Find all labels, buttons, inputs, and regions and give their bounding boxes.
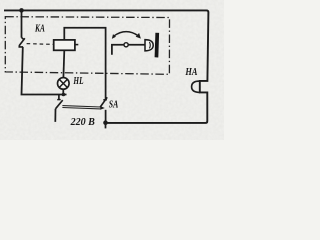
dash-dot apparatus frame	[5, 17, 169, 75]
switch SA left blade	[56, 100, 63, 109]
switch SA right blade	[100, 97, 107, 107]
switch SA right pole tick	[103, 99, 107, 101]
svg-text:220 В: 220 В	[70, 117, 95, 128]
wire coil top loop to switch branch	[64, 28, 105, 100]
contact KA blade	[19, 38, 25, 45]
coil right stub	[75, 44, 78, 46]
contact KA lower step	[19, 45, 23, 47]
bell pivot	[124, 43, 128, 47]
bell armature	[112, 45, 145, 55]
node top-left junction	[19, 8, 24, 13]
svg-text:SA: SA	[109, 98, 119, 109]
wire left branch down to contact	[21, 10, 23, 37]
svg-text:HL: HL	[73, 75, 84, 86]
switch SA linkage tip	[100, 106, 105, 110]
bell swing arc	[114, 32, 139, 37]
lamp HL cross	[59, 79, 67, 87]
mechanical link dashes contact-coil	[27, 43, 54, 46]
svg-text:НА: НА	[185, 66, 198, 78]
wire contact to bottom corner	[22, 47, 67, 95]
svg-text:КА: КА	[34, 22, 45, 33]
contact KA fixed tick	[22, 37, 25, 40]
wire SA left bottom terminal	[54, 109, 56, 122]
bell swing arrow right	[136, 33, 141, 39]
wire main loop top right bottom with HA notch	[4, 10, 208, 123]
node SA bottom junction	[103, 120, 108, 125]
node lamp-wire junction	[62, 93, 66, 97]
relay coil KA	[54, 40, 75, 50]
bell swing arrow left	[112, 34, 116, 39]
bell HA bulge	[192, 81, 200, 92]
bell gong bar	[155, 33, 160, 58]
switch SA left pole stub	[58, 95, 60, 100]
switch SA left pole tick	[57, 99, 61, 101]
wire lamp bottom stub	[62, 89, 64, 94]
bell hammer inner arc	[148, 42, 151, 48]
bell hammer head	[145, 40, 153, 51]
wire SA right to junction	[105, 110, 107, 123]
wire supply stub below junction	[105, 123, 107, 129]
switch SA linkage double line	[62, 106, 100, 109]
lamp HL circle	[58, 78, 70, 90]
wire coil bottom to lamp	[62, 50, 65, 77]
